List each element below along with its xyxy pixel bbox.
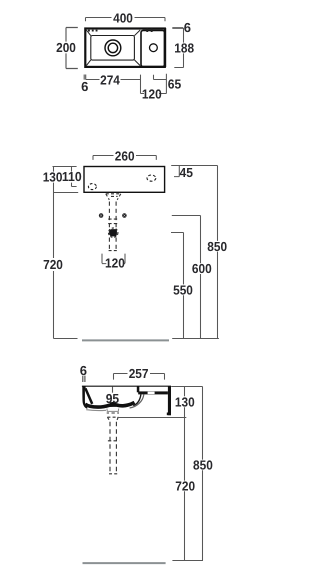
dimension tick (130/110 top reference) bbox=[53, 166, 77, 168]
svg-text:720: 720 bbox=[175, 479, 195, 494]
svg-text:130: 130 bbox=[175, 394, 195, 409]
waste outlet plug bbox=[110, 229, 117, 236]
hidden waste pipe (side) bbox=[108, 422, 119, 474]
basin inner slope bbox=[85, 388, 92, 404]
svg-text:95: 95 bbox=[106, 391, 119, 406]
svg-text:110: 110 bbox=[62, 169, 82, 184]
wall mounting hole right bbox=[122, 213, 127, 218]
basin floor rounded rectangle bbox=[91, 36, 135, 61]
hidden flange bottom dashes bbox=[107, 412, 119, 414]
dimension line 720 (front) bbox=[54, 193, 78, 339]
side view dimension lines bbox=[83, 374, 203, 561]
right wall bottom foot bbox=[167, 413, 171, 416]
svg-text:130: 130 bbox=[43, 170, 63, 185]
svg-text:850: 850 bbox=[207, 239, 227, 254]
plan outer rim right edge thickening bbox=[165, 28, 167, 67]
tap hole circle bbox=[150, 44, 158, 52]
dimension line 260 (top) bbox=[93, 156, 156, 160]
svg-text:45: 45 bbox=[180, 165, 193, 180]
svg-text:6: 6 bbox=[80, 363, 87, 378]
svg-text:120: 120 bbox=[105, 256, 125, 271]
dimension line 110 bbox=[72, 167, 77, 187]
hidden overflow ellipse left bbox=[88, 184, 96, 190]
dimension stub 95 bbox=[112, 387, 114, 393]
hidden tap hole ellipse right bbox=[147, 175, 156, 181]
under-surface gray edge bbox=[86, 409, 106, 412]
dimension stubs 6 (side rim) bbox=[83, 376, 85, 382]
plan outer rim rectangle bbox=[85, 29, 165, 67]
overflow channel inner curve bbox=[133, 394, 141, 405]
tap hole slot in deck bbox=[148, 392, 155, 394]
overflow channel outer curve bbox=[130, 394, 144, 408]
dimension line 400 (overall width) bbox=[86, 18, 166, 22]
hidden drain trapezoid bbox=[106, 194, 121, 200]
svg-text:65: 65 bbox=[168, 77, 181, 92]
plan view dimension lines bbox=[66, 18, 184, 94]
front view dimension lines bbox=[53, 156, 219, 339]
floor line (side view) bbox=[83, 562, 166, 564]
dimension line 130 (side) bbox=[184, 387, 186, 418]
rim top line bbox=[82, 385, 171, 387]
floor line (front view) bbox=[82, 339, 169, 341]
mounting hole cross slits bbox=[100, 214, 126, 216]
dimension line 550 bbox=[171, 233, 184, 339]
dimension line 65 (bottom right) bbox=[154, 74, 167, 94]
right wall section bbox=[168, 386, 171, 415]
hidden tail trapezoid bbox=[107, 417, 118, 421]
drain flange bbox=[107, 409, 119, 412]
dimension line 720 (side) bbox=[184, 418, 186, 561]
floor tick right (front) bbox=[172, 338, 219, 340]
svg-text:720: 720 bbox=[43, 257, 63, 272]
drain inner circle bbox=[108, 43, 117, 52]
rim tick marks bbox=[88, 29, 153, 32]
dimension bracket 45 bbox=[174, 166, 179, 177]
svg-text:257: 257 bbox=[129, 366, 149, 381]
tap deck bar bbox=[138, 391, 168, 394]
dimension line 188 (right side) bbox=[174, 28, 183, 68]
svg-text:188: 188 bbox=[174, 41, 194, 56]
dimension hooks 120 (pipe spacing) bbox=[102, 254, 125, 264]
wall mounting hole left bbox=[99, 213, 104, 218]
deck left upturn bbox=[137, 386, 140, 392]
floor tick (side) bbox=[172, 560, 203, 562]
svg-text:400: 400 bbox=[113, 10, 133, 25]
svg-text:550: 550 bbox=[173, 282, 193, 297]
ceramic bottom band bbox=[85, 402, 134, 407]
svg-text:260: 260 bbox=[115, 148, 135, 163]
dimension tick (850 top reference) bbox=[171, 165, 217, 167]
svg-text:274: 274 bbox=[100, 73, 120, 88]
dimension line 850 (front) bbox=[217, 166, 219, 339]
dimension bracket 200 (left side) bbox=[66, 28, 78, 69]
sink front rectangle bbox=[84, 167, 165, 193]
dimension line 600 bbox=[172, 216, 201, 339]
dimension tick 6 (top right rim) bbox=[172, 27, 183, 29]
svg-text:120: 120 bbox=[142, 86, 162, 101]
tap ledge compartment rectangle bbox=[141, 30, 165, 66]
waste outlet dashed ring bbox=[109, 228, 118, 237]
drain outer circle bbox=[105, 40, 121, 56]
dimension line 274 (bottom) bbox=[86, 75, 167, 94]
basin corner bevel lines bbox=[86, 30, 140, 66]
svg-text:6: 6 bbox=[81, 79, 88, 94]
ceramic left wall section bbox=[82, 386, 87, 409]
drain boss bump bbox=[110, 402, 117, 406]
svg-text:6: 6 bbox=[184, 20, 191, 35]
dimension stubs 6 (bottom left rim) bbox=[84, 75, 86, 80]
dimension tick (130/850 top reference, side) bbox=[171, 386, 202, 388]
dimension line 850 (side) bbox=[202, 387, 204, 561]
svg-text:200: 200 bbox=[56, 40, 76, 55]
dimension line 130 (left) bbox=[54, 167, 79, 193]
dimension line 257 (depth) bbox=[114, 374, 165, 380]
svg-text:600: 600 bbox=[192, 261, 212, 276]
dimension tick (720 top reference, side) bbox=[117, 417, 186, 419]
plan outer rim bottom edge thickening bbox=[85, 66, 166, 68]
hidden waste pipe bbox=[108, 202, 117, 251]
svg-text:850: 850 bbox=[193, 457, 213, 472]
